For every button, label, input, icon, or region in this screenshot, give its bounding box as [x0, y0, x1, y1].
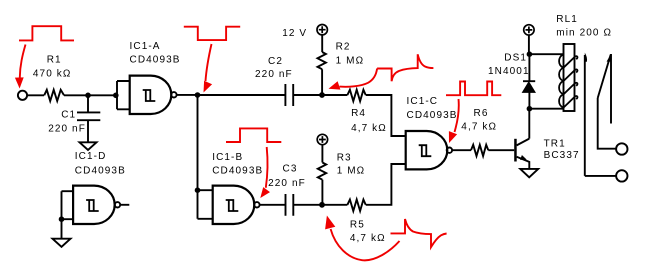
wire R6 to TR1 base: [488, 149, 514, 151]
node dot IC1-A input: [113, 93, 119, 99]
svg-text:470 kΩ: 470 kΩ: [33, 68, 72, 79]
svg-text:min 200 Ω: min 200 Ω: [556, 28, 612, 39]
svg-text:R4: R4: [351, 108, 366, 119]
relay RL1 coil windings: [559, 54, 577, 67]
svg-text:12 V: 12 V: [282, 28, 307, 39]
waveform W2 (IC1-A output): [184, 27, 240, 40]
wire IC1-B to C3: [260, 204, 286, 206]
svg-text:IC1-C: IC1-C: [407, 96, 439, 107]
svg-text:IC1-B: IC1-B: [212, 152, 243, 163]
svg-text:C2: C2: [268, 56, 283, 67]
wire + to R3: [321, 145, 323, 163]
emitter arrow TR1: [520, 155, 527, 160]
wire +12V to diode node: [528, 35, 530, 54]
svg-text:IC1-D: IC1-D: [75, 151, 107, 162]
annotation arrow A2: [206, 44, 212, 81]
svg-text:BC337: BC337: [544, 150, 580, 161]
wire C2 to node: [293, 94, 322, 96]
wire collector up: [528, 109, 530, 139]
contact rail: [610, 54, 612, 124]
svg-text:1N4001: 1N4001: [488, 66, 530, 77]
schmitt symbol IC1-B: [226, 200, 239, 211]
svg-text:DS1: DS1: [504, 52, 527, 63]
wire 12V to R2: [321, 35, 323, 52]
resistor R3: [318, 163, 326, 180]
svg-text:R6: R6: [474, 108, 489, 119]
resistor R4: [347, 90, 365, 102]
capacitor C1: [77, 112, 100, 120]
svg-text:4,7 kΩ: 4,7 kΩ: [461, 122, 497, 133]
relay contact fixed line: [584, 55, 586, 176]
schmitt symbol IC1-C: [419, 145, 432, 156]
wire diode top to relay coil: [529, 53, 563, 55]
resistor R1: [44, 90, 64, 101]
NAND gate IC1-A body: [130, 76, 172, 114]
terminal circle 2: [616, 170, 627, 181]
svg-text:220 nF: 220 nF: [48, 124, 86, 135]
wire blade to terminal 1: [598, 98, 617, 149]
output bubble IC1-D: [115, 202, 120, 207]
output stub IC1-D: [120, 204, 129, 206]
waveform W3 (RC at R2/R4 node): [377, 54, 433, 81]
svg-text:1 MΩ: 1 MΩ: [337, 166, 366, 177]
transistor TR1: [514, 139, 517, 162]
wire R3 to node: [321, 180, 323, 205]
input terminal: [18, 91, 27, 100]
svg-text:TR1: TR1: [544, 139, 566, 150]
resistor R5: [347, 200, 365, 212]
svg-text:RL1: RL1: [556, 14, 578, 25]
annotation arrow A5: [331, 229, 400, 260]
wire IC1-C to R6: [452, 149, 471, 151]
wire R5 to IC1-C lower input: [366, 164, 406, 205]
resistor R2: [318, 52, 326, 69]
supply terminal + (R3): [317, 134, 327, 144]
junction dot R2/C2/R4: [319, 92, 325, 98]
annotation arrow A4: [266, 147, 268, 188]
NAND gate IC1-B body: [213, 186, 255, 224]
waveform W6 (IC1-C output pulses): [446, 82, 501, 96]
output bubble IC1-C: [447, 148, 452, 153]
relay RL1 coil core: [564, 44, 575, 111]
svg-text:C1: C1: [61, 110, 76, 121]
wire R4 to IC1-C upper input: [366, 95, 406, 136]
resistor R6: [471, 145, 488, 156]
schmitt symbol IC1-A: [143, 90, 156, 101]
svg-text:1 MΩ: 1 MΩ: [336, 56, 365, 67]
svg-text:CD4093B: CD4093B: [407, 110, 458, 121]
wire IC1-D input to ground: [61, 219, 63, 239]
node dot IC1-B input: [195, 187, 201, 193]
diode DS1: [528, 92, 530, 108]
terminal circle 1: [616, 143, 627, 154]
output bubble IC1-B: [254, 202, 259, 207]
NAND gate IC1-C body: [406, 131, 448, 169]
svg-text:4,7 kΩ: 4,7 kΩ: [351, 123, 387, 134]
node dot IC1-D input: [59, 216, 65, 222]
input tie bar IC1-D: [62, 191, 74, 219]
wire IC1-A out to node: [177, 94, 198, 96]
svg-text:R1: R1: [47, 55, 62, 66]
relay contact blade: [598, 55, 611, 98]
wire down to C1: [87, 95, 89, 112]
wire R1 to gate input: [64, 94, 117, 96]
annotation arrow A6: [455, 99, 459, 132]
wire node to R4: [322, 94, 347, 96]
schmitt symbol IC1-D: [86, 200, 99, 211]
svg-text:CD4093B: CD4093B: [130, 54, 181, 65]
capacitor C2: [285, 84, 293, 106]
wire node to C2: [198, 94, 286, 96]
svg-text:C3: C3: [283, 164, 298, 175]
svg-text:220 nF: 220 nF: [268, 178, 306, 189]
junction dot C1 tap: [85, 93, 91, 99]
annotation arrow A3: [340, 69, 378, 87]
ground (IC1-D): [53, 239, 71, 247]
svg-text:4,7 kΩ: 4,7 kΩ: [350, 233, 386, 244]
junction dot R3/C3/R5: [319, 202, 325, 208]
svg-text:CD4093B: CD4093B: [75, 165, 126, 176]
svg-text:R2: R2: [336, 42, 351, 53]
svg-text:R5: R5: [350, 220, 365, 231]
capacitor C3: [286, 194, 294, 216]
input tie bar IC1-A: [117, 81, 130, 109]
NAND gate IC1-D body: [73, 186, 115, 224]
blade tip arrow: [607, 54, 611, 62]
junction dot diode bottom: [527, 106, 533, 112]
supply terminal 12V: [317, 25, 327, 35]
svg-text:220 nF: 220 nF: [255, 69, 293, 80]
waveform W4 (IC1-B output pulse): [226, 128, 281, 142]
wire R2 to node: [321, 69, 323, 95]
wire diode bottom to relay coil: [529, 108, 563, 110]
wire node to R5: [322, 204, 347, 206]
svg-text:CD4093B: CD4093B: [212, 166, 263, 177]
supply terminal +12V (relay): [524, 25, 534, 35]
svg-text:IC1-A: IC1-A: [130, 41, 161, 52]
waveform W1 (input pulse): [19, 26, 74, 40]
wire to terminal 2: [585, 175, 616, 177]
wire C3 to node: [293, 204, 322, 206]
wire node down to IC1-B: [197, 95, 199, 190]
output bubble IC1-A: [171, 92, 176, 97]
wire C1 to ground: [87, 120, 89, 142]
junction dot diode top: [527, 51, 533, 57]
ground (C1): [80, 142, 97, 150]
waveform W5 (RC at R3/R5 node): [391, 219, 447, 247]
contact tip (fixed): [585, 53, 587, 62]
ground (TR1 emitter): [520, 169, 538, 177]
input tie bar IC1-B: [198, 190, 213, 219]
wire input to R1: [27, 94, 44, 96]
junction dot IC1-A output: [195, 92, 201, 98]
svg-text:R3: R3: [337, 153, 352, 164]
annotation arrow A1: [20, 45, 26, 78]
